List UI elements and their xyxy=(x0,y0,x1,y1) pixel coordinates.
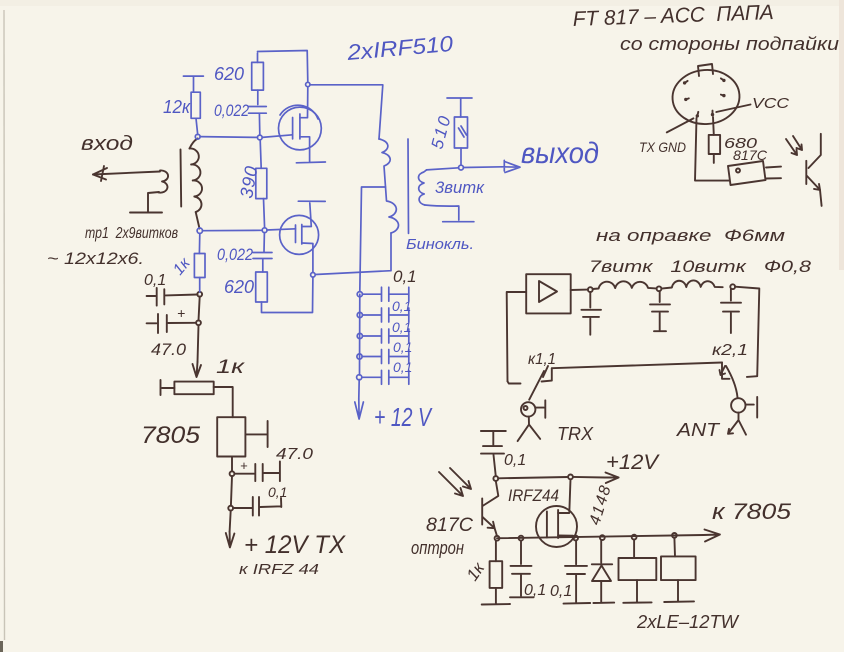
svg-text:+ 12 V: + 12 V xyxy=(374,402,433,432)
svg-text:выход: выход xyxy=(521,137,599,170)
svg-text:ANT: ANT xyxy=(676,420,722,440)
input arrow wire xyxy=(93,172,160,175)
top rail wire xyxy=(258,51,308,83)
output wire with arrow xyxy=(427,167,503,170)
bypass cap row 1 xyxy=(362,287,408,301)
wire VCC pin to 680 xyxy=(712,117,715,135)
K2.1 fixed contact xyxy=(722,363,730,379)
node gate row 2 xyxy=(262,228,267,233)
resistor 620 top xyxy=(257,53,259,62)
svg-text:TX GND: TX GND xyxy=(639,139,686,155)
7805 right lead xyxy=(245,421,267,447)
primary bottom wire to Q2 drain xyxy=(315,233,391,275)
scanner edge line left xyxy=(3,10,6,640)
K1.1 bypass wire to K2.1 xyxy=(552,363,722,369)
LED leads to phototransistor xyxy=(766,166,781,169)
node L2 right xyxy=(730,284,735,289)
transformer T1 core xyxy=(180,150,183,207)
svg-text:0,1: 0,1 xyxy=(144,272,166,289)
svg-text:VCC: VCC xyxy=(752,95,789,112)
bottom rail wire xyxy=(497,535,703,538)
svg-text:+: + xyxy=(177,305,185,321)
rail arrow to 7805 xyxy=(703,530,720,542)
inductor L1 7 vitk xyxy=(593,281,656,289)
resistor 620 bottom xyxy=(256,272,268,302)
svg-text:2хLE–12TW: 2хLE–12TW xyxy=(636,612,740,632)
wire 12k to node xyxy=(196,118,198,134)
capacitor 0,1 at optron collector xyxy=(481,431,506,476)
svg-text:к2,1: к2,1 xyxy=(712,342,748,359)
wire right and down to K2.1 xyxy=(735,287,759,377)
phototransistor Q (in 817C) xyxy=(809,134,821,168)
svg-text:+: + xyxy=(240,458,248,473)
capacitor C-f2 xyxy=(650,291,670,331)
bypass cap row 3 xyxy=(362,329,408,343)
svg-text:620: 620 xyxy=(214,64,244,84)
secondary winding 3 vitka xyxy=(418,170,426,205)
ANT connector pole xyxy=(731,398,745,412)
VCC label + leader xyxy=(716,105,750,113)
wire down xyxy=(231,476,232,506)
regulator 7805 box xyxy=(217,417,245,456)
wire below 7805 xyxy=(231,457,233,472)
optocoupler U2 box 817C xyxy=(728,161,766,185)
MOSFET Q2 IRF510 lower xyxy=(280,215,319,254)
pot right terminal wire to 7805 xyxy=(214,387,233,417)
center tap wire to +12V bus xyxy=(360,187,386,292)
svg-text:0,1: 0,1 xyxy=(393,359,412,375)
input jack curve xyxy=(159,170,169,192)
connector X1 body xyxy=(671,68,742,127)
node gate row 1 left xyxy=(195,134,200,139)
wire TXGND pin to opto box xyxy=(695,118,729,181)
svg-text:+ 12V ТХ: + 12V ТХ xyxy=(244,531,346,559)
pot left terminal xyxy=(161,380,175,395)
bypass cap row 2 xyxy=(362,308,408,322)
bypass cap row 4 xyxy=(362,350,409,364)
wire down to pot wiper arrow xyxy=(198,325,199,362)
resistor 680 xyxy=(709,135,720,154)
svg-text:вход: вход xyxy=(81,133,133,155)
node cap/390 top xyxy=(257,135,262,140)
wire 680 to opto box xyxy=(713,154,715,163)
K1.1 moving arm xyxy=(529,371,544,400)
svg-text:0,1: 0,1 xyxy=(393,339,412,355)
bypass cap row 5 xyxy=(362,370,409,384)
T1 lead down xyxy=(196,212,200,229)
+12V TX arrow down xyxy=(230,511,231,532)
svg-text:~ 12х12х6.: ~ 12х12х6. xyxy=(47,249,144,268)
resistor 1k blue (bias) xyxy=(198,233,200,253)
T1 lead up xyxy=(190,139,198,149)
svg-text:0,1: 0,1 xyxy=(393,267,417,286)
svg-text:1к: 1к xyxy=(216,357,245,378)
capacitor 0,1 (rail 1) xyxy=(510,541,534,598)
wire amp box to L1 xyxy=(571,289,588,291)
+12V bus with cap chain nodes xyxy=(359,294,360,399)
svg-text:0,1: 0,1 xyxy=(268,484,287,500)
svg-text:тр1 2х9витков: тр1 2х9витков xyxy=(85,225,178,242)
gate row 1 wire xyxy=(200,135,292,138)
capacitor 0,1 output xyxy=(233,497,281,516)
capacitor C-f1 xyxy=(581,292,601,335)
svg-text:0,1: 0,1 xyxy=(504,452,526,469)
resistor 1k xyxy=(495,541,497,562)
resistor 390 xyxy=(260,140,261,168)
svg-text:со стороны подпайки: со стороны подпайки xyxy=(620,34,839,54)
svg-text:7805: 7805 xyxy=(141,422,201,449)
input ground xyxy=(148,192,159,212)
svg-text:IRFZ44: IRFZ44 xyxy=(508,486,559,505)
svg-text:0,1: 0,1 xyxy=(392,319,411,335)
MOSFET Q1 IRF510 upper xyxy=(279,107,322,150)
resistor 510 xyxy=(454,117,467,148)
node Q2 drain xyxy=(311,273,316,278)
capacitor 0,022 top xyxy=(249,107,267,135)
node below 7805 xyxy=(230,471,235,476)
resistor 510 top bar xyxy=(447,98,472,117)
inductor L2 10 vitk xyxy=(661,280,722,288)
svg-text:817С: 817С xyxy=(426,515,473,536)
resistor 12k xyxy=(191,92,200,118)
potentiometer 1k xyxy=(174,382,213,395)
node output xyxy=(459,165,464,170)
MOSFET Q2 IRFZ44 xyxy=(536,506,577,547)
secondary ground xyxy=(425,205,474,222)
gate row 2 wire xyxy=(203,229,296,231)
svg-text:0,022: 0,022 xyxy=(217,245,253,264)
TX GND label + leader xyxy=(667,118,694,132)
svg-text:оптрон: оптрон xyxy=(411,538,464,558)
svg-text:0,1: 0,1 xyxy=(392,298,411,314)
svg-text:к IRFZ 44: к IRFZ 44 xyxy=(239,561,319,578)
wire node to transformer top xyxy=(310,85,383,139)
svg-text:7витк 10витк Ф0,8: 7витк 10витк Ф0,8 xyxy=(589,257,812,276)
light arrows at phototransistor xyxy=(786,139,797,155)
capacitor 0,1 left xyxy=(147,295,156,297)
capacitor C-f3 xyxy=(721,289,741,333)
svg-text:47.0: 47.0 xyxy=(151,340,187,359)
relay RL1 xyxy=(633,540,635,559)
relay RL2 xyxy=(673,538,676,557)
svg-text:47.0: 47.0 xyxy=(276,446,313,463)
svg-text:TRX: TRX xyxy=(557,424,594,444)
node optron collector xyxy=(493,476,498,481)
svg-text:620: 620 xyxy=(224,277,254,297)
binocular core line xyxy=(407,139,410,233)
svg-text:0,022: 0,022 xyxy=(214,101,249,120)
svg-text:0,1: 0,1 xyxy=(524,582,546,599)
amplifier block box xyxy=(526,274,571,313)
svg-text:Бинокль.: Бинокль. xyxy=(406,236,474,253)
connector pins xyxy=(683,81,686,84)
wire down to next node xyxy=(199,297,200,321)
svg-text:к 7805: к 7805 xyxy=(712,499,792,524)
supply T bar xyxy=(183,76,203,92)
svg-text:12к: 12к xyxy=(163,97,191,117)
binocular transformer primary winding xyxy=(379,139,398,233)
wire 620 to cap xyxy=(257,90,259,104)
node at 0,1 cap xyxy=(197,292,202,297)
capacitor 47.0 electrolytic xyxy=(147,322,157,324)
wire 620 bottom to Q2 drain xyxy=(262,277,313,312)
optocoupler phototransistor 817C xyxy=(481,498,483,524)
capacitor 0,1 (rail 2) xyxy=(564,540,591,603)
svg-text:к1,1: к1,1 xyxy=(528,351,556,368)
wire node to +12V arrow xyxy=(498,477,605,478)
node L1 left xyxy=(588,287,593,292)
rail node circles xyxy=(495,536,500,541)
+12V arrow xyxy=(355,399,364,419)
capacitor 47.0 output xyxy=(235,461,280,481)
svg-text:+12V: +12V xyxy=(606,451,660,474)
transformer T1 secondary winding xyxy=(190,148,203,212)
TRX connector pole xyxy=(521,402,535,416)
K2.1 moving arm xyxy=(726,366,738,397)
capacitor 0,022 bottom xyxy=(253,233,272,272)
node top xyxy=(306,82,310,86)
node transformer bottom xyxy=(197,228,202,233)
light arrows at optron xyxy=(439,472,463,496)
svg-text:0,1: 0,1 xyxy=(550,583,572,600)
K1.1 fixed contact hook xyxy=(508,381,521,383)
node between coils xyxy=(657,286,662,291)
connector key notch xyxy=(698,64,713,76)
diode 4148 xyxy=(592,540,614,603)
svg-text:3витк: 3витк xyxy=(435,178,485,197)
svg-text:на оправке Ф6мм: на оправке Ф6мм xyxy=(596,226,785,245)
wire left of amp box xyxy=(507,292,527,381)
node 2 xyxy=(228,506,233,511)
